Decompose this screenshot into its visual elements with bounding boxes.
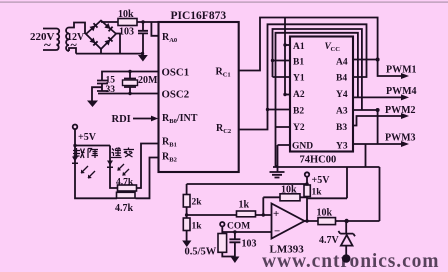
svg-text:~: ~	[71, 38, 78, 52]
svg-text:B2: B2	[293, 107, 304, 117]
svg-text:Y4: Y4	[336, 90, 348, 100]
svg-text:A2: A2	[293, 90, 305, 100]
svg-text:A3: A3	[336, 107, 348, 117]
svg-text:74HC00: 74HC00	[300, 155, 337, 166]
svg-text:1k: 1k	[192, 222, 203, 232]
svg-text:Y1: Y1	[293, 74, 305, 84]
svg-text:~: ~	[44, 37, 51, 52]
svg-text:B4: B4	[336, 74, 347, 84]
svg-text:4.7k: 4.7k	[115, 203, 134, 214]
svg-text:+5V: +5V	[78, 132, 97, 143]
svg-text:PWM3: PWM3	[385, 133, 416, 144]
svg-text:OSC2: OSC2	[162, 89, 190, 101]
svg-text:PWM2: PWM2	[385, 105, 416, 116]
svg-text:10k: 10k	[281, 185, 297, 196]
svg-text:4.7V: 4.7V	[319, 235, 340, 246]
svg-text:0.5/5W: 0.5/5W	[185, 247, 217, 258]
svg-text:−: −	[274, 226, 280, 238]
svg-text:+5V: +5V	[312, 175, 331, 186]
svg-text:1k: 1k	[312, 188, 323, 198]
svg-text:15: 15	[106, 76, 116, 86]
svg-text:A1: A1	[293, 42, 305, 52]
svg-text:103: 103	[242, 239, 257, 250]
svg-text:10k: 10k	[118, 9, 134, 20]
svg-text:103: 103	[119, 27, 134, 38]
svg-text:B3: B3	[336, 123, 347, 133]
svg-text:CC: CC	[331, 46, 341, 53]
svg-text:GND: GND	[292, 142, 313, 152]
svg-text:A4: A4	[336, 58, 348, 68]
svg-text:2k: 2k	[192, 198, 203, 208]
svg-text:+: +	[273, 208, 279, 220]
svg-text:RDI: RDI	[112, 114, 131, 125]
svg-text:1k: 1k	[239, 200, 250, 211]
svg-text:Y2: Y2	[293, 123, 305, 133]
svg-text:20M: 20M	[138, 75, 158, 86]
svg-text:COM: COM	[227, 222, 250, 232]
svg-text:PWM4: PWM4	[386, 86, 417, 97]
svg-text:33: 33	[106, 85, 116, 95]
svg-text:RB0/INT: RB0/INT	[162, 113, 198, 125]
svg-text:10k: 10k	[317, 208, 333, 219]
svg-text:www.cntronics.com: www.cntronics.com	[262, 251, 439, 272]
svg-text:PWM1: PWM1	[386, 65, 417, 76]
svg-text:OSC1: OSC1	[162, 67, 190, 79]
svg-text:4.7k: 4.7k	[116, 178, 134, 188]
svg-text:220V: 220V	[30, 31, 55, 43]
svg-text:Y3: Y3	[336, 142, 348, 152]
svg-text:PIC16F873: PIC16F873	[171, 10, 227, 22]
svg-text:B1: B1	[293, 58, 304, 68]
